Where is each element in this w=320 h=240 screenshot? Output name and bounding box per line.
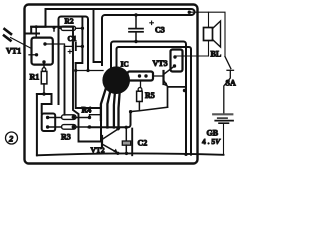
wire module to VT3 base [153,75,164,77]
wire ground riser left [36,94,38,155]
border PCB outline [25,5,198,164]
svg-text:R3: R3 [61,133,71,142]
R2 loop wire [59,17,89,105]
svg-text:C3: C3 [155,26,165,35]
svg-text:4 . 5V: 4 . 5V [202,137,221,146]
node C1 right [81,45,84,48]
node VT3 collector [173,55,176,58]
module box right of IC [128,72,154,81]
IC leg 2 [107,93,110,128]
wire top rail (positive) with U-turn at right [46,9,195,65]
resistor R2 [61,26,76,30]
svg-text:C2: C2 [138,139,148,148]
capacitor C2 [125,127,127,141]
wire R5 bottom L [131,102,168,112]
resistor R1 [41,71,47,84]
wire ground bus bottom [37,153,224,155]
svg-text:VT3: VT3 [153,59,168,68]
IC leg 3 [113,94,116,128]
wire R1 node horizontal [37,93,52,95]
node VT1 collector [43,42,46,45]
wire staircase to bias box [42,94,52,114]
wire VT2 emitter to ground [117,152,118,153]
wire VT1 top bus [26,27,74,34]
node VT1 emitter [42,60,45,63]
wire bus3b [117,47,192,155]
wire bundle vertical d [76,63,101,108]
node C3 bottom [134,40,137,43]
battery GB plates [213,113,232,115]
pointer line to VT1 [11,38,31,49]
wire collector bus [89,112,131,128]
wire speaker bottom lead [208,41,210,57]
node R2 right [81,27,84,30]
wire battery negative [223,124,225,155]
wire C1 right lead [76,45,83,47]
IC leg to VT2 base riser [101,90,106,121]
node R5 corner [129,110,132,113]
svg-text:2: 2 [8,134,14,144]
node bias b [46,125,49,128]
wire bus corner down to ground [131,129,133,156]
wire R4 zigzag to IC leg [90,115,102,118]
terminal circle R1 top [42,68,46,72]
wire blob left horizontal [76,70,103,72]
node VT1 base [35,53,38,56]
node R4 right [88,116,91,119]
terminal circle R5 top [138,88,142,92]
wire VT3 emitter node [168,87,187,107]
switch SA [225,57,231,69]
svg-text:VT1: VT1 [6,47,21,56]
transistor VT2 [101,136,103,148]
phototransistor light arrow 2 [4,36,11,41]
svg-text:IC: IC [121,60,129,69]
plus mark C1 [68,50,71,53]
svg-text:BL: BL [211,50,222,59]
wire module down to R5 [140,81,142,88]
svg-text:R4: R4 [82,106,92,115]
svg-text:SA: SA [226,79,236,88]
node VT1 top stub b [52,26,55,29]
wire step from rail down to VT1 top node [31,9,45,34]
resistor R3 [62,125,77,130]
wire R3 row [48,126,90,128]
node VT2 collector [116,127,119,130]
IC leg 4 [119,93,120,128]
phototransistor light arrow 1 [5,29,12,34]
wire VT1 emitter to R1 [43,62,45,68]
node VT2 emitter ground [116,152,119,155]
svg-text:R1: R1 [30,73,40,82]
wire rail to speaker and switch [189,12,225,56]
wire speaker top lead [208,12,210,27]
node R1 ground [42,92,45,95]
node module b [144,74,147,77]
wire VT1 base stub [29,54,37,56]
svg-text:R5: R5 [145,91,155,100]
node loop right leg [86,69,89,72]
capacitor C1 [73,43,76,50]
wire VT2 base riser lower [100,120,102,142]
wire R1 bottom to ground node [43,84,45,94]
transistor VT3 symbol [162,71,164,84]
wire bus3a [111,42,186,155]
bias box [42,114,56,132]
node VT3 emitter join [183,89,186,92]
resistor R5 [137,91,143,101]
wire vertical x82 from loop top through R2 C1 [76,17,83,64]
wire R2 leads [59,27,83,29]
node rail tap to speaker [188,11,191,14]
wire bundle vertical b to R4 [64,46,66,114]
node C2 ground [125,152,128,155]
wire bundle vertical c to VT2 base [73,27,102,142]
resistor R4 [62,115,77,120]
plus mark C3 [150,21,154,25]
wire vertical from rail to IC top [94,9,103,62]
wire R4 row [48,117,90,119]
speaker BL [204,28,213,41]
capacitor C3 [135,15,137,28]
transistor VT1 box [32,38,53,65]
node bus leg join [117,126,120,129]
transistor VT3 box [171,50,183,72]
node R3 right [88,125,91,128]
IC blob chip [102,66,130,94]
node bus C2 [125,126,128,129]
wire VT3 collector to speaker [175,55,209,57]
node bias a [46,116,49,119]
node VT3 inner [173,64,176,67]
node bundle d f [74,69,77,72]
node battery ground join [184,153,187,156]
node VT1 top stub a [35,25,38,28]
svg-text:R2: R2 [65,17,74,26]
figure number 2 [6,132,18,144]
node module a [138,74,141,77]
wire VT1 collector to C1 [45,44,72,46]
